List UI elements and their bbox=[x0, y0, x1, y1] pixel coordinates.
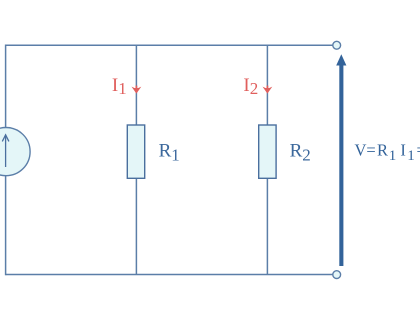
current source (circle body) bbox=[0, 128, 30, 176]
node: bottom-right terminal bbox=[333, 271, 341, 279]
wire: left rail bbox=[5, 45, 7, 276]
resistor R1 (body) bbox=[127, 125, 144, 178]
wire: R1 branch bbox=[135, 45, 137, 274]
svg-text:1: 1 bbox=[407, 148, 415, 164]
current I2 arrowhead bbox=[263, 86, 273, 94]
svg-text:=: = bbox=[417, 141, 420, 160]
svg-text:1: 1 bbox=[389, 148, 397, 164]
svg-text:V: V bbox=[355, 141, 367, 160]
equation V=R1I1= bbox=[355, 141, 420, 164]
wire: R2 branch bbox=[266, 45, 268, 274]
wire: bottom rail bbox=[6, 274, 333, 276]
svg-text:I1: I1 bbox=[112, 75, 127, 98]
svg-text:R1: R1 bbox=[159, 141, 180, 165]
svg-text:I2: I2 bbox=[243, 75, 258, 98]
node: top-right terminal bbox=[333, 41, 341, 49]
svg-text:R2: R2 bbox=[290, 141, 311, 165]
wire: top rail bbox=[6, 44, 333, 46]
resistor R2 (body) bbox=[259, 125, 276, 178]
svg-text:=: = bbox=[366, 141, 375, 160]
svg-text:R: R bbox=[377, 141, 388, 160]
voltage arrow (V) bbox=[336, 54, 346, 266]
current source arrow bbox=[2, 135, 9, 167]
current I1 arrowhead bbox=[132, 86, 142, 94]
svg-text:I: I bbox=[400, 141, 406, 160]
